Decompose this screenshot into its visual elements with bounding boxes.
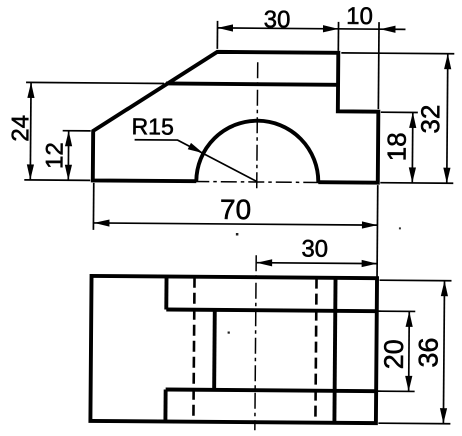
dim text 18	[381, 132, 411, 161]
svg-text:30: 30	[301, 236, 328, 263]
svg-text:18: 18	[381, 132, 411, 161]
svg-text:30: 30	[264, 6, 291, 33]
extension line y390 right	[378, 390, 415, 392]
svg-text:32: 32	[415, 104, 445, 133]
bottom view vertical x336	[334, 278, 335, 423]
hidden line x317	[315, 278, 316, 423]
bottom view vertical x215	[212, 310, 217, 390]
extension line y310 right	[378, 310, 415, 312]
bottom view vertical x167 lower	[163, 389, 167, 421]
extension line x216	[216, 21, 218, 49]
dimension line 70	[94, 223, 377, 225]
front horizontal centerline	[193, 182, 322, 183]
stray dot 2	[399, 227, 401, 229]
extension line y279 right	[380, 279, 452, 282]
svg-text:24: 24	[7, 115, 34, 142]
dim text 12	[41, 142, 68, 169]
dimension line 12	[67, 131, 69, 180]
extension line y52 right	[341, 52, 454, 55]
extension line y132	[63, 130, 91, 132]
dimension line 30 bottom	[257, 262, 377, 265]
svg-text:20: 20	[379, 339, 409, 369]
hidden line x195	[193, 277, 194, 422]
stray dot 3	[228, 331, 230, 333]
extension line y111 right	[381, 111, 418, 113]
internal edge	[166, 83, 338, 84]
front vertical centerline	[257, 62, 258, 192]
svg-text:10: 10	[346, 3, 373, 30]
svg-text:12: 12	[41, 142, 68, 169]
extension line x377 lower	[376, 185, 379, 280]
bottom view row3	[166, 389, 376, 391]
svg-text:70: 70	[220, 194, 251, 225]
semicircular cutout R15	[196, 120, 318, 182]
dimension line 32	[447, 54, 448, 183]
extension line x93 lower	[92, 183, 94, 230]
bottom view centerline	[255, 255, 256, 430]
stray dot 1	[236, 233, 239, 236]
bottom view row2	[166, 309, 376, 311]
extension line x337	[337, 22, 339, 51]
dimension line 30/10	[217, 28, 405, 29]
front view outline	[93, 51, 379, 183]
bottom view outline	[90, 276, 377, 423]
extension line y82 left	[26, 82, 164, 83]
extension line bottom left	[24, 179, 90, 182]
R15 leader	[134, 140, 256, 181]
extension line y181 right	[380, 182, 453, 185]
svg-text:36: 36	[413, 337, 443, 367]
dimension line 18	[411, 113, 414, 183]
dim text 32	[415, 104, 445, 133]
dim text 36	[413, 337, 443, 367]
dimension line 24	[29, 82, 32, 179]
dim text 20	[379, 339, 409, 369]
dimension line 36	[443, 281, 444, 424]
bottom view vertical x167 upper	[164, 276, 168, 309]
extension line y422 right	[378, 422, 450, 425]
dim text 24	[7, 115, 34, 142]
dimension line 20	[408, 311, 411, 391]
extension line x377 upper	[377, 22, 380, 109]
svg-text:R15: R15	[132, 113, 174, 139]
